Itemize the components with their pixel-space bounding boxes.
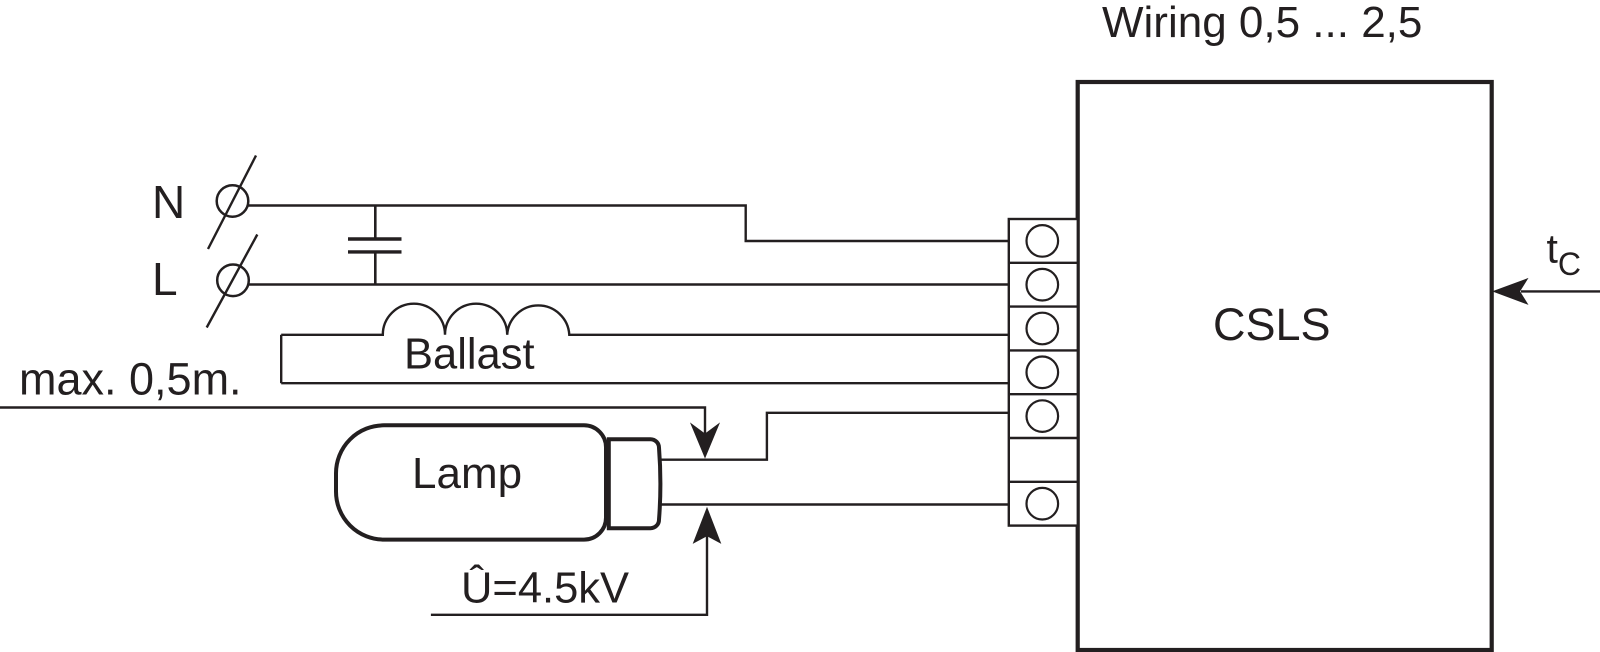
terminal block outline [1009, 219, 1078, 526]
ballast left edge [280, 335, 282, 383]
terminal 2 screw circle [1027, 269, 1059, 301]
svg-text:max. 0,5m.: max. 0,5m. [19, 354, 242, 405]
svg-text:Ballast: Ballast [404, 331, 535, 379]
up arrowhead at lamp bottom lead [694, 509, 720, 542]
switch S1 circle (N) [217, 185, 249, 217]
lamp base cap [609, 439, 661, 528]
terminal divider 6/7 [1009, 481, 1078, 483]
switch S2 circle (L) [217, 265, 249, 297]
terminal 3 screw circle [1027, 313, 1059, 345]
svg-text:N: N [152, 176, 185, 228]
lamp body [336, 425, 606, 539]
dimension line max 0,5m [0, 408, 705, 437]
tc pointer line [1521, 290, 1600, 292]
wire L to terminal 2 [248, 283, 1009, 285]
wire lamp top pin to terminal 5 [659, 413, 1009, 460]
svg-text:Wiring 0,5 ... 2,5: Wiring 0,5 ... 2,5 [1102, 0, 1422, 47]
terminal divider 1/2 [1009, 262, 1078, 264]
wire lamp bottom pin to terminal 7 [659, 503, 1009, 505]
tc left arrowhead [1494, 279, 1528, 304]
ballast inductor winding and wire to terminal 3 [281, 304, 1009, 335]
terminal 7 screw circle [1027, 488, 1059, 520]
switch S2 blade (L) [207, 235, 258, 328]
svg-text:L: L [152, 253, 178, 305]
terminal divider 3/4 [1009, 349, 1078, 351]
dimension line U=4.5kV [431, 532, 707, 615]
capacitor C1 top plate [348, 237, 402, 240]
terminal divider 5/6 [1009, 437, 1078, 439]
capacitor C1 bottom plate [348, 250, 402, 253]
svg-text:Û=4.5kV: Û=4.5kV [461, 563, 629, 613]
terminal 5 screw circle [1027, 400, 1059, 432]
terminal divider 4/5 [1009, 393, 1078, 395]
CSLS box U1 [1078, 82, 1492, 650]
terminal 1 screw circle [1027, 225, 1059, 257]
ballast bottom wire to terminal 4 [281, 382, 1009, 384]
terminal divider 2/3 [1009, 305, 1078, 307]
wire N to terminal 1 [248, 206, 1009, 242]
switch S1 blade (N) [208, 156, 256, 250]
capacitor C1 bottom lead [374, 252, 377, 285]
terminal 4 screw circle [1027, 357, 1059, 389]
capacitor C1 top lead [374, 206, 377, 240]
down arrowhead at lamp lead [692, 425, 718, 457]
svg-text:CSLS: CSLS [1213, 299, 1331, 350]
svg-text:Lamp: Lamp [412, 449, 522, 498]
